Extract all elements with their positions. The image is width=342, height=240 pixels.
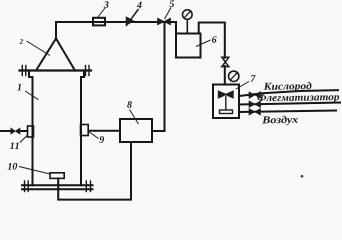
svg-text:Воздух: Воздух xyxy=(261,115,298,127)
svg-text:2: 2 xyxy=(19,38,24,46)
svg-text:3: 3 xyxy=(103,0,109,11)
svg-text:6: 6 xyxy=(212,35,217,46)
svg-text:4: 4 xyxy=(136,0,142,11)
svg-text:5: 5 xyxy=(169,0,174,10)
svg-text:11: 11 xyxy=(10,141,20,152)
svg-text:Кислород: Кислород xyxy=(263,81,312,93)
svg-text:8: 8 xyxy=(127,100,132,111)
svg-text:1: 1 xyxy=(17,82,22,93)
svg-text:10: 10 xyxy=(7,162,17,173)
svg-text:Флегматизатор: Флегматизатор xyxy=(257,92,340,104)
svg-text:9: 9 xyxy=(99,135,104,146)
